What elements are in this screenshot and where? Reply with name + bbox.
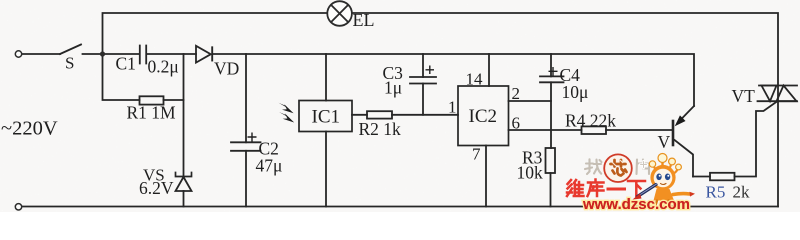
svg-text:www.dzsc.com: www.dzsc.com — [582, 196, 690, 212]
svg-text:R2 1k: R2 1k — [359, 119, 402, 139]
svg-text:2: 2 — [512, 84, 521, 103]
svg-text:10μ: 10μ — [562, 82, 589, 102]
svg-text:VT: VT — [732, 86, 756, 106]
svg-text:~220V: ~220V — [1, 118, 58, 140]
svg-text:7: 7 — [472, 145, 481, 164]
svg-text:IC1: IC1 — [312, 107, 341, 128]
svg-text:14: 14 — [466, 70, 484, 89]
svg-text:10k: 10k — [517, 163, 544, 183]
svg-text:EL: EL — [353, 10, 375, 30]
svg-text:R4 22k: R4 22k — [565, 111, 616, 131]
svg-text:47μ: 47μ — [256, 156, 283, 176]
svg-text:R5: R5 — [706, 183, 726, 202]
svg-text:S: S — [65, 54, 74, 73]
svg-text:1: 1 — [448, 98, 457, 117]
svg-text:V: V — [658, 132, 671, 152]
svg-text:6.2V: 6.2V — [139, 178, 174, 198]
svg-text:2k: 2k — [733, 183, 751, 202]
svg-text:IC2: IC2 — [469, 106, 498, 127]
svg-text:R1 1M: R1 1M — [127, 103, 177, 123]
svg-text:VD: VD — [214, 59, 239, 79]
svg-text:6: 6 — [512, 114, 521, 133]
svg-text:0.2μ: 0.2μ — [148, 57, 179, 77]
svg-text:1μ: 1μ — [384, 78, 402, 98]
svg-text:C1: C1 — [116, 54, 136, 74]
